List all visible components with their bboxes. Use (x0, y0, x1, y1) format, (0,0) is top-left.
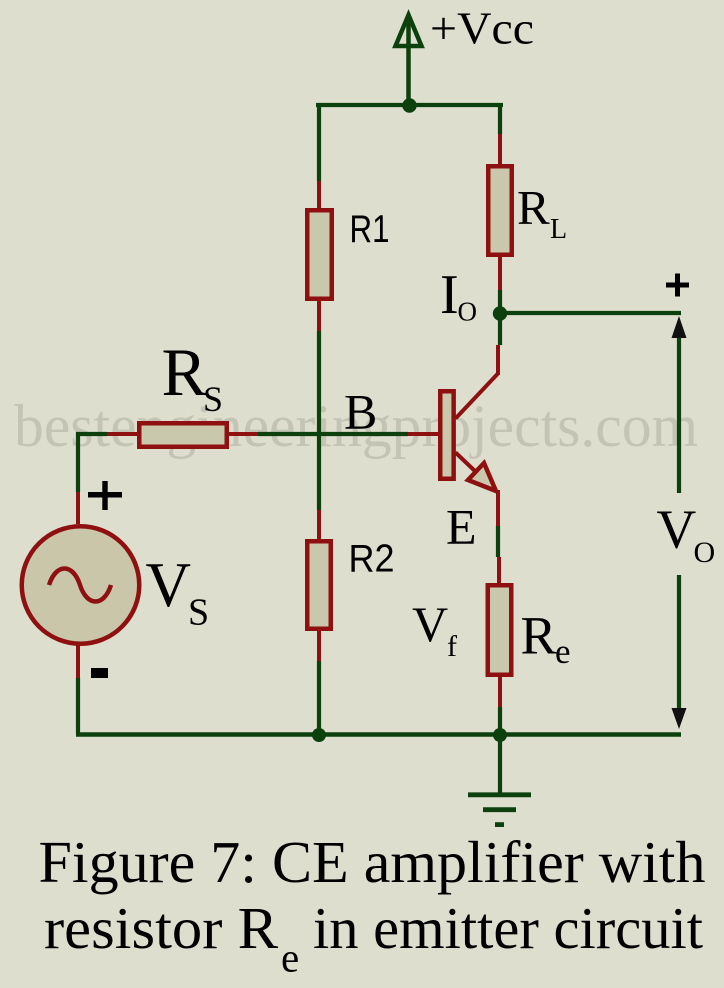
resistor R2 (307, 541, 331, 629)
wire source to RS green (76, 432, 107, 436)
wire RL top pin (498, 134, 502, 166)
wire R1 bottom pin (317, 299, 321, 331)
label plus output vertical bar (675, 274, 680, 297)
ground bar 1 (468, 792, 531, 797)
transistor Q1 base bar (440, 391, 453, 479)
power symbol +Vcc arrow (396, 15, 422, 103)
svg-text:B: B (344, 383, 377, 439)
wire Re bottom pin (498, 675, 502, 707)
svg-text:V: V (657, 499, 697, 560)
svg-text:f: f (447, 630, 457, 663)
svg-text:R2: R2 (349, 537, 395, 580)
svg-text:e: e (281, 935, 299, 981)
wire Re to ground green (498, 707, 502, 734)
wire emitter diagonal (456, 453, 478, 474)
svg-text:in emitter circuit: in emitter circuit (313, 895, 704, 961)
transistor Q1 emitter arrow (468, 463, 496, 491)
wire collector below node green (498, 313, 502, 345)
wire VS top vertical green (76, 432, 80, 492)
wire VS bottom vertical green (76, 678, 80, 734)
wire R1 top pin (317, 181, 321, 210)
ground bar 2 (483, 807, 516, 812)
node emitter ground junction dot (493, 728, 507, 742)
wire bottom horizontal rail (76, 732, 681, 737)
label plus output horizontal bar (666, 283, 689, 288)
svg-text:e: e (555, 632, 571, 671)
wire VS bottom pin maroon (76, 644, 80, 678)
wire collector maroon vertical (496, 345, 500, 375)
arrow up output (672, 316, 687, 338)
svg-text:V: V (412, 596, 448, 652)
wire RL to output node green (498, 290, 502, 313)
arrow down output (672, 708, 687, 729)
wire ground stem (498, 735, 502, 794)
wire RS left pin (107, 432, 139, 436)
node Vcc junction dot (402, 98, 416, 112)
svg-text:E: E (446, 499, 477, 555)
resistor Re (488, 585, 512, 675)
wire collector diagonal (456, 374, 498, 419)
node R2 ground junction dot (312, 728, 326, 742)
svg-text:V: V (146, 550, 192, 620)
wire output right upper vertical (677, 334, 681, 493)
svg-text:R: R (162, 334, 208, 410)
svg-text:L: L (550, 214, 567, 245)
node output junction dot (493, 306, 507, 320)
svg-text:S: S (188, 592, 209, 634)
wire VS top pin maroon (76, 492, 80, 524)
svg-text:O: O (458, 297, 478, 327)
wire RS right pin (227, 432, 258, 436)
wire RL bottom pin (498, 255, 502, 290)
svg-text:resistor R: resistor R (44, 895, 279, 961)
label plus VS vertical bar (102, 481, 107, 510)
resistor RS (139, 423, 227, 447)
svg-text:R1: R1 (350, 208, 390, 251)
wire left branch middle green (317, 331, 321, 510)
svg-text:S: S (203, 379, 223, 419)
wire base pin maroon (408, 432, 438, 436)
svg-text:R: R (517, 180, 550, 235)
svg-text:R: R (521, 606, 557, 666)
wire collector branch upper green (498, 103, 502, 134)
ground bar 3 (495, 822, 504, 827)
svg-text:I: I (440, 264, 459, 326)
label minus VS (91, 668, 108, 678)
wire R2 bottom pin (317, 629, 321, 661)
wire emitter vertical green (496, 526, 500, 557)
wire Re top pin (497, 557, 501, 585)
wire output horizontal (500, 311, 681, 315)
wire left branch lower green (317, 661, 321, 734)
wire top horizontal Vcc rail (316, 103, 503, 107)
svg-text:O: O (694, 536, 716, 569)
source VS circle (22, 526, 140, 644)
svg-text:Figure 7: CE amplifier with: Figure 7: CE amplifier with (39, 829, 706, 895)
wire left branch upper green (317, 103, 321, 181)
wire output right lower vertical (677, 575, 681, 711)
wire emitter vertical maroon upper (496, 490, 500, 526)
svg-text:+Vcc: +Vcc (430, 4, 534, 54)
label plus VS horizontal bar (88, 492, 122, 498)
wire base horizontal green (258, 432, 408, 436)
wire R2 top pin (317, 510, 321, 541)
resistor RL (488, 166, 512, 255)
resistor R1 (307, 210, 332, 299)
source VS sine wave (49, 569, 111, 602)
